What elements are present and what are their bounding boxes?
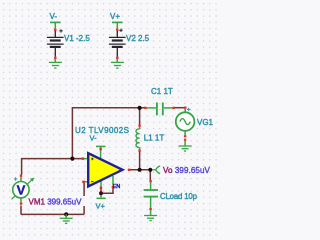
svg-text:CLoad 10p: CLoad 10p <box>160 192 198 201</box>
op-amp U2 pin IN+ <box>82 157 85 160</box>
voltage pin Vo symbol <box>152 166 160 174</box>
svg-text:Vo 399.65uV: Vo 399.65uV <box>163 166 210 175</box>
svg-text:V-: V- <box>50 12 58 21</box>
ground on bottom rail <box>60 214 73 223</box>
capacitor CLoad top pin <box>149 180 151 182</box>
svg-text:EN: EN <box>113 184 120 190</box>
ground under VG1 <box>179 141 192 151</box>
junction node: rail ground <box>64 212 68 216</box>
wire: V+/EN tie <box>101 188 113 194</box>
svg-text:VG1: VG1 <box>197 118 214 127</box>
op-amp U2 TLV9002S triangle <box>88 153 122 186</box>
svg-text:V2 2.5: V2 2.5 <box>126 34 150 43</box>
junction node: output corner / Vo pin <box>148 168 152 172</box>
op-amp U2 input leads (green) <box>84 159 89 182</box>
ground under CLoad <box>144 210 157 220</box>
op-amp U2 supply stub V- (green lead above) <box>96 146 106 158</box>
inductor L1 <box>136 125 141 152</box>
voltage generator VG1 <box>176 107 195 141</box>
op-amp U2 supply stub V+ and EN (green leads below) <box>97 176 114 198</box>
ground under V2 <box>111 59 124 68</box>
wire: L1 bottom segment <box>139 152 141 170</box>
svg-text:V: V <box>17 183 26 198</box>
ground under V1 <box>49 59 62 68</box>
battery V1 <box>47 22 64 59</box>
wire: VM1 top drop <box>21 158 23 175</box>
op-amp U2 pin EN <box>112 186 115 189</box>
svg-text:VM1 399.65uV: VM1 399.65uV <box>29 198 83 207</box>
svg-text:V1 -2.5: V1 -2.5 <box>64 34 90 43</box>
wire: output row <box>130 169 150 171</box>
capacitor C1 <box>144 102 175 115</box>
svg-text:U2 TLV9002S: U2 TLV9002S <box>75 126 129 135</box>
op-amp U2 pin V- supply <box>99 148 102 151</box>
svg-text:L1 1T: L1 1T <box>144 134 165 143</box>
svg-text:C1 1T: C1 1T <box>151 87 173 96</box>
wire: input row horizontal <box>22 158 83 160</box>
junction node: V+ tie <box>99 191 103 195</box>
battery V2 <box>109 22 126 59</box>
wire: CLoad drop <box>149 170 151 181</box>
svg-text:V+: V+ <box>110 12 120 21</box>
op-amp + input marker <box>91 158 94 161</box>
wire: L1 top segment <box>139 108 141 125</box>
wire: C1 right to VG1 <box>175 107 186 109</box>
voltmeter VM1 <box>12 175 35 205</box>
wire: VM1 bottom drop <box>20 206 22 215</box>
wire: top-left vertical down to input row <box>71 107 73 159</box>
junction node: C1/L1/top wire <box>138 106 142 110</box>
op-amp - input marker <box>91 181 93 183</box>
wire: inverting input riser <box>83 183 85 215</box>
op-amp U2 output pin <box>128 169 131 171</box>
label VM1 399.65uV <box>27 196 87 206</box>
op-amp U2 pin V+ supply <box>100 187 103 190</box>
wire: top horizontal from corner to C1 junction <box>72 107 145 109</box>
svg-text:V+: V+ <box>96 202 106 211</box>
wire: bottom rail <box>21 213 84 215</box>
capacitor CLoad <box>144 182 158 210</box>
junction node: L1 bottom / output <box>138 168 142 172</box>
op-amp U2 pin IN- <box>82 181 85 184</box>
svg-text:V-: V- <box>90 134 98 143</box>
junction node: input row <box>70 157 74 161</box>
